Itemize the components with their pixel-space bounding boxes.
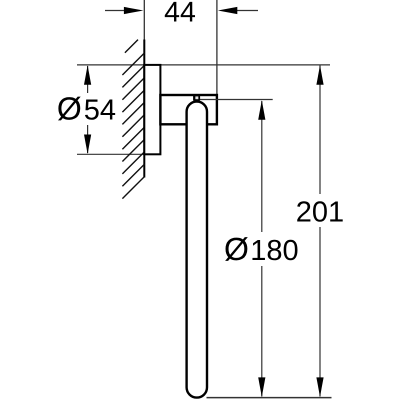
arrowhead 44 left (124, 7, 143, 14)
holder arm side view (160, 95, 217, 124)
svg-text:201: 201 (296, 196, 344, 228)
wall hatching (122, 40, 144, 199)
arrowhead 201 up (316, 65, 323, 85)
svg-text:Ø180: Ø180 (224, 231, 299, 267)
dimension line 201 (x=320) (319, 66, 321, 195)
dimension line O54 (x=87.6) (87, 66, 89, 93)
extension line: O180 top ext (gray) (200, 99, 273, 101)
extension line: O54 bottom ext (77, 153, 144, 155)
arrowhead O54 down (84, 135, 91, 155)
wall plate (rosette) side view (144, 65, 160, 154)
extension line: O180/201 bottom ext (207, 397, 332, 399)
svg-text:44: 44 (164, 0, 196, 29)
arrowhead 44 right (218, 7, 238, 14)
hanger pin (193, 96, 200, 101)
extension line: wall face upper (thin) (143, 0, 145, 40)
arrowhead O180 down (258, 377, 265, 397)
towel ring tube (side view, stadium) (187, 102, 207, 398)
wire: dimension leader right of 44 (236, 10, 258, 12)
wall line (thick) (143, 40, 145, 178)
arrowhead 201 down (316, 377, 323, 397)
svg-text:Ø54: Ø54 (57, 91, 116, 127)
wire: dimension leader left of 44 (105, 10, 126, 12)
extension line: horizontal top (O54 left ext + 201 top ext) y=64.9 (77, 64, 330, 66)
arrowhead O180 up (258, 100, 265, 120)
dimension line O180 (x=261.8) (261, 101, 263, 232)
extension line: product front at x=216.9 (216, 0, 218, 95)
arrowhead O54 up (84, 65, 91, 85)
